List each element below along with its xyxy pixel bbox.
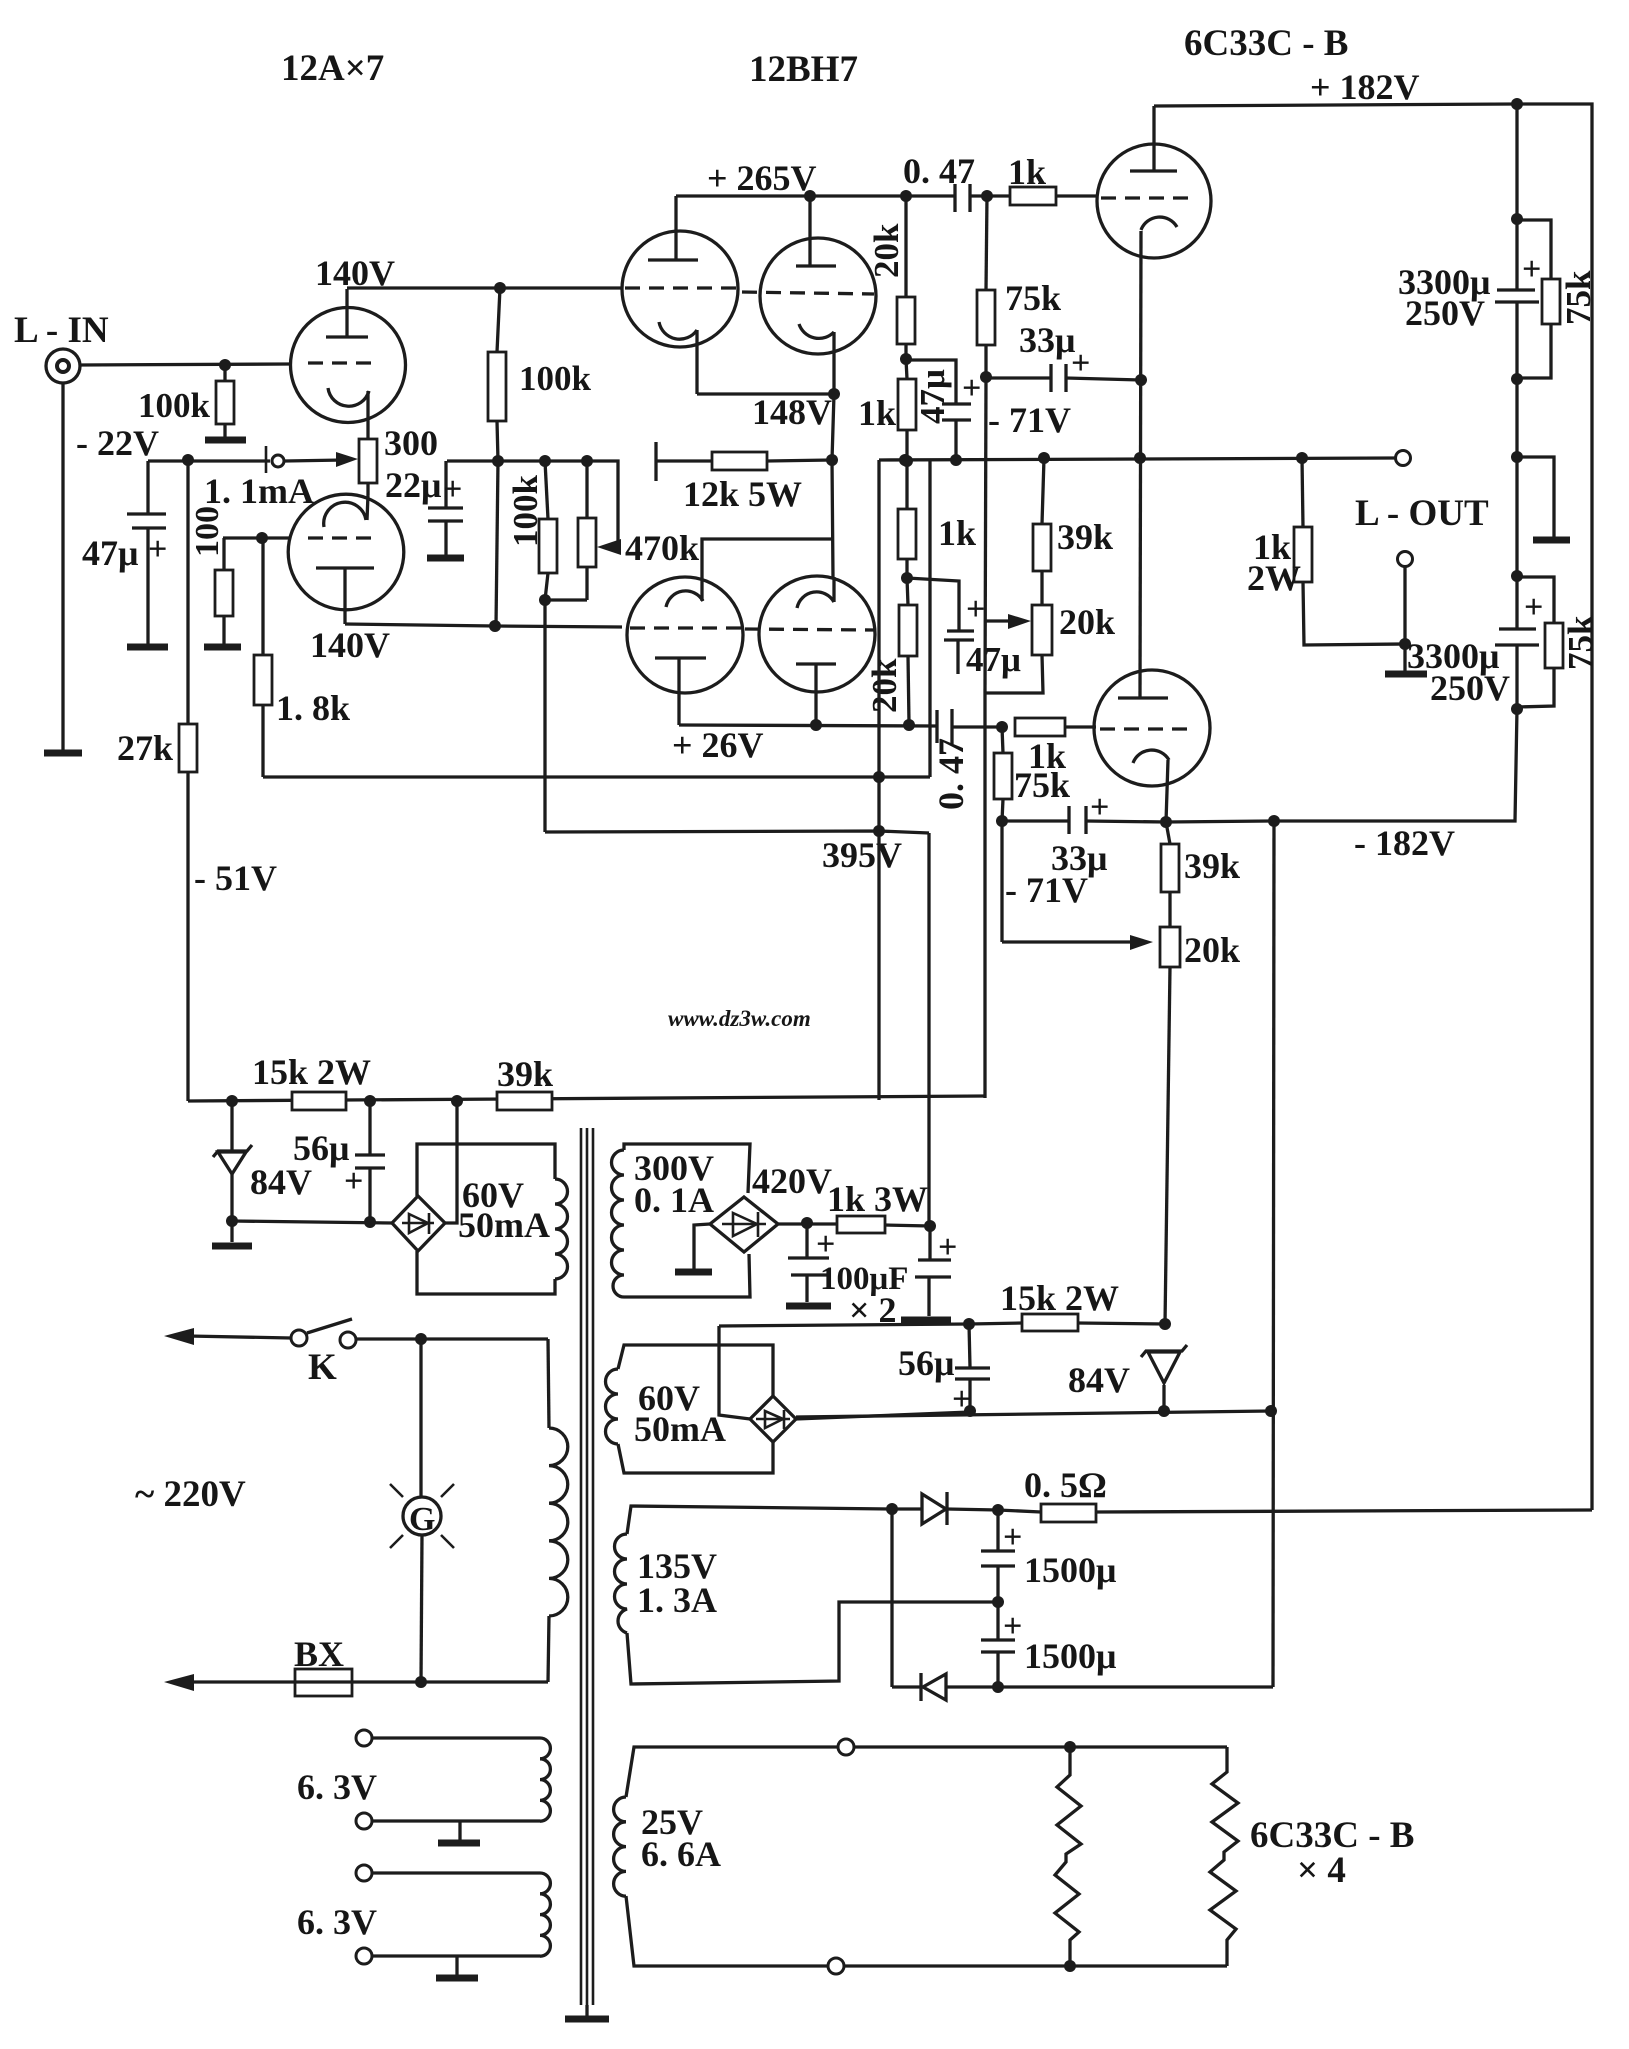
svg-text:+: + <box>816 1226 835 1263</box>
resistor R7 100k <box>545 461 548 519</box>
node 1k3W out <box>924 1220 936 1232</box>
resistor R25 15k 2W <box>292 1092 346 1110</box>
svg-text:20k: 20k <box>867 223 906 278</box>
wiper circle <box>272 455 284 467</box>
svg-text:1. 8k: 1. 8k <box>276 688 350 728</box>
wire L-IN shield down <box>61 383 64 750</box>
svg-text:1k: 1k <box>938 513 976 553</box>
ground under R1 <box>205 437 246 444</box>
ground B2 <box>675 1269 712 1276</box>
switch K <box>291 1330 307 1346</box>
V6 cathode (top) <box>666 591 703 607</box>
potentiometer R24 20k lower <box>1160 927 1180 967</box>
svg-text:- 22V: - 22V <box>76 423 159 463</box>
node zener2 top <box>1159 1318 1171 1330</box>
node -182V raw <box>992 1681 1004 1693</box>
capacitor C4 47u upper <box>906 360 956 404</box>
node cap1 bottom <box>1511 373 1523 385</box>
svg-text:+: + <box>962 370 981 407</box>
ground tap bar <box>1533 537 1570 544</box>
V3 cathode <box>659 322 697 339</box>
V1 cathode <box>328 388 369 406</box>
wire 39k psu drop <box>927 833 930 1226</box>
svg-text:× 4: × 4 <box>1297 1850 1346 1891</box>
node bus 47u <box>950 454 962 466</box>
wiper arrow into R2 <box>285 460 344 461</box>
resistor R14 20k lower <box>899 605 917 656</box>
V4 grid <box>742 292 874 294</box>
svg-text:47μ: 47μ <box>966 640 1021 679</box>
V5 grid <box>1101 196 1195 199</box>
node heater bus bottom <box>1064 1960 1076 1972</box>
node 56u tap <box>364 1095 376 1107</box>
lamp G <box>419 1339 422 1497</box>
node V2 grid <box>256 532 268 544</box>
wire decoupled node bus <box>447 461 618 547</box>
node plate rail junction <box>494 282 506 294</box>
resistor R26 39k psu <box>497 1092 552 1110</box>
svg-text:420V: 420V <box>752 1161 832 1201</box>
svg-text:0. 5Ω: 0. 5Ω <box>1024 1465 1107 1505</box>
ground L-OUT <box>1385 671 1427 678</box>
svg-text:2W: 2W <box>1247 558 1301 598</box>
capacitor C2 22u <box>444 461 447 507</box>
svg-text:+: + <box>344 1163 363 1200</box>
capacitor C13 100uF b <box>928 1226 931 1259</box>
ground L-IN <box>44 750 82 757</box>
potentiometer R2 300 (balance) <box>359 439 377 483</box>
node cap2 top <box>1511 570 1523 582</box>
svg-text:+ 182V: + 182V <box>1310 67 1420 107</box>
V8 cathode <box>1133 750 1169 763</box>
diode D3 <box>923 1674 946 1700</box>
V6 grid <box>630 626 742 629</box>
terminal L-OUT upper <box>1396 451 1411 466</box>
resistor R19 75k bleeder upper <box>1517 220 1551 279</box>
capacitor C8 3300u lower <box>1499 627 1536 630</box>
heater string 1 (zigzag) <box>1055 1747 1081 1966</box>
wire bus drop to feedback <box>928 461 931 777</box>
resistor R6 100k plate load <box>497 288 500 352</box>
svg-text:75k: 75k <box>1559 270 1598 325</box>
node 12k junction <box>826 454 838 466</box>
wire mid vertical down <box>543 600 546 832</box>
node 265V/0.47 <box>900 190 912 202</box>
wire -71V down to wiper lower <box>1000 821 1003 942</box>
resistor R12 1k <box>906 359 907 379</box>
svg-text:G: G <box>409 1501 435 1538</box>
rail +182V top <box>1154 104 1592 1510</box>
V5 cathode <box>1141 217 1177 230</box>
resistor R1 100k grid leak <box>223 365 226 381</box>
node +182V <box>1511 98 1523 110</box>
transformer winding T1-60V upper <box>417 1144 555 1196</box>
center tap a <box>458 1821 461 1840</box>
node cap2 bottom <box>1511 703 1523 715</box>
svg-text:1k: 1k <box>858 393 896 433</box>
resistor R5 1.8k feedback <box>261 538 264 655</box>
ground core <box>585 2005 588 2016</box>
node feedback 879 <box>873 771 885 783</box>
node bus100k a <box>492 455 504 467</box>
svg-text:- 71V: - 71V <box>988 400 1071 440</box>
switch K arrow <box>164 1328 194 1345</box>
node cap1 top <box>1511 213 1523 225</box>
V4 cathode <box>799 324 834 338</box>
svg-text:+: + <box>1003 1519 1022 1556</box>
wire V5 cathode down to lower plate <box>1140 231 1141 698</box>
bridge rectifier B2 420V <box>710 1197 778 1252</box>
wire 15k2W lower feed <box>719 1324 969 1326</box>
V3 grid <box>625 286 737 289</box>
wire to -182V rail <box>998 1685 1273 1688</box>
capacitor C1 47u <box>146 461 149 513</box>
resistor R29 15k 2W lower <box>1022 1314 1078 1331</box>
wire L-IN to V1 grid <box>80 364 291 365</box>
node -71V lower <box>996 815 1008 827</box>
wire bias feed down <box>983 693 986 1098</box>
svg-text:www.dz3w.com: www.dz3w.com <box>668 1006 811 1031</box>
svg-text:250V: 250V <box>1405 293 1485 333</box>
svg-text:0. 47: 0. 47 <box>931 738 971 810</box>
wire 578 stub to 47u lower <box>907 578 959 631</box>
svg-text:BX: BX <box>294 1634 344 1674</box>
node bus left corner down <box>877 460 880 1100</box>
heater winding 6.3V b <box>356 1865 372 1881</box>
resistor R13 1k lower <box>898 509 916 559</box>
svg-text:140V: 140V <box>310 625 390 665</box>
potentiometer R8 470k <box>585 461 588 518</box>
tube V1 12AX7a <box>291 308 406 423</box>
svg-text:0. 1A: 0. 1A <box>634 1180 714 1220</box>
V7 cathode (top) <box>797 592 834 608</box>
connector J1 L-IN <box>46 349 80 383</box>
node V8 cathode <box>1160 816 1172 828</box>
wiper arrow 470k <box>597 539 621 555</box>
node 56u lower <box>963 1318 975 1330</box>
svg-text:47μ: 47μ <box>82 533 138 573</box>
capacitor C7 3300u upper <box>1497 288 1535 291</box>
node cathode bus <box>1134 452 1146 464</box>
capacitor C10 33u lower <box>1002 819 1069 822</box>
svg-text:1k 3W: 1k 3W <box>827 1179 928 1219</box>
V6 plate (bottom) <box>655 656 706 659</box>
svg-text:1500μ: 1500μ <box>1024 1636 1116 1676</box>
wire B3 out <box>796 1412 970 1419</box>
svg-text:1500μ: 1500μ <box>1024 1550 1116 1590</box>
svg-text:+: + <box>966 591 985 628</box>
svg-text:300: 300 <box>384 423 438 463</box>
svg-text:20k: 20k <box>1184 930 1240 970</box>
wire V1 plate rail to 12BH7 <box>347 286 622 289</box>
svg-text:50mA: 50mA <box>634 1409 726 1449</box>
capacitor C11 56u <box>368 1101 371 1154</box>
zener D1 84V <box>230 1101 233 1151</box>
node 578 <box>901 572 913 584</box>
node bus470k <box>581 455 593 467</box>
node zener2 bottom <box>1158 1405 1170 1417</box>
svg-text:47μ: 47μ <box>913 369 952 424</box>
svg-text:50mA: 50mA <box>458 1205 550 1245</box>
wire D3 branch <box>890 1509 893 1687</box>
capacitor C5 47u lower <box>947 629 974 632</box>
tube V4 12BH7 upper-right <box>760 238 876 354</box>
resistor R23 39k lower <box>1166 822 1170 844</box>
svg-text:- 71V: - 71V <box>1005 870 1088 910</box>
tube V2 12AX7b <box>288 494 404 610</box>
node 1500u top <box>992 1504 1004 1516</box>
node 39k tap <box>451 1095 463 1107</box>
tube V7 12BH7 lower-right <box>759 576 875 692</box>
svg-text:27k: 27k <box>117 728 173 768</box>
node lamp tap <box>415 1333 427 1345</box>
svg-text:+: + <box>443 471 462 508</box>
tube V3 12BH7 upper-left <box>622 231 738 347</box>
svg-text:12A×7: 12A×7 <box>281 48 384 89</box>
svg-text:6. 3V: 6. 3V <box>297 1902 377 1942</box>
svg-text:~ 220V: ~ 220V <box>135 1474 246 1515</box>
ground zener <box>212 1243 252 1250</box>
transformer winding T1-60V lower <box>618 1345 773 1396</box>
potentiometer R17 20k upper <box>1032 605 1052 655</box>
node speaker gnd tap <box>1511 451 1523 463</box>
capacitor C3 0.47 upper <box>953 184 956 212</box>
svg-text:20k: 20k <box>1059 602 1115 642</box>
wire -182V rail right <box>1274 709 1517 821</box>
resistor R10 1k grid stopper upper <box>1010 187 1056 205</box>
bridge rectifier B3 60V lower <box>750 1396 796 1442</box>
heater winding 6.3V a <box>356 1730 372 1746</box>
capacitor C15 1500u b <box>996 1602 999 1639</box>
svg-text:75k: 75k <box>1014 765 1070 805</box>
node terminal/1k2W <box>1399 638 1411 650</box>
wire lower cathode jog <box>702 539 833 577</box>
svg-text:+: + <box>1524 589 1543 626</box>
V8 plate <box>1118 696 1168 699</box>
wire 420V out <box>778 1222 837 1225</box>
wiper arrow 20k lower <box>1002 940 1136 943</box>
resistor R4 100 <box>222 538 225 570</box>
wire bias long line <box>188 1096 985 1101</box>
node input junction <box>219 359 231 371</box>
wire -182V vertical psu <box>1273 821 1274 1687</box>
wiper arrow 20k upper <box>985 619 1014 622</box>
node zener bottom <box>226 1215 238 1227</box>
wire lower terminal down <box>1403 567 1406 671</box>
svg-text:K: K <box>308 1347 337 1388</box>
transformer core <box>580 1128 583 2005</box>
node V4 plate tap <box>804 190 816 202</box>
V1 grid <box>308 361 380 364</box>
svg-text:33μ: 33μ <box>1019 320 1075 360</box>
heater winding 25V 6.6A <box>626 1747 838 1797</box>
node 395V junction <box>873 825 885 837</box>
wire -182V bias bus <box>796 1411 1273 1417</box>
wire bias return <box>232 1221 392 1223</box>
svg-text:1k: 1k <box>1008 152 1046 192</box>
resistor R18 1k 2W <box>1302 458 1303 527</box>
heater string 2 (zigzag) <box>1210 1747 1238 1966</box>
wire 395V horizontal <box>545 831 929 833</box>
node V7 plate <box>810 719 822 731</box>
node -182V psu drop <box>1268 815 1280 827</box>
node cathode 33u <box>1135 374 1147 386</box>
V1 plate <box>326 335 368 338</box>
resistor R3 27k <box>179 724 197 772</box>
wire 20k bottom loop <box>985 655 1043 693</box>
svg-text:+ 26V: + 26V <box>672 725 764 765</box>
svg-text:- 51V: - 51V <box>194 858 277 898</box>
node bus 905 <box>899 454 911 466</box>
resistor R16 39k upper <box>1042 458 1044 524</box>
wire V2 grid left <box>223 536 289 539</box>
V2 grid <box>308 536 378 539</box>
svg-text:84V: 84V <box>250 1162 312 1202</box>
wiper tick <box>265 446 268 473</box>
resistor R27 1k 3W <box>837 1216 885 1233</box>
svg-text:148V: 148V <box>752 392 832 432</box>
svg-text:20k: 20k <box>865 658 904 713</box>
wire -71V down to wiper <box>985 377 986 693</box>
resistor R21 1k grid stopper lower <box>1015 718 1065 736</box>
ground C2 <box>427 555 464 562</box>
node heater bus top <box>1064 1741 1076 1753</box>
primary winding T1-220V <box>548 1339 549 1428</box>
node 148V <box>828 388 840 400</box>
svg-text:39k: 39k <box>1184 846 1240 886</box>
rail 182V mid <box>1515 104 1518 290</box>
ground R4 <box>204 644 241 651</box>
svg-text:100k: 100k <box>138 386 211 425</box>
node BX lamp <box>415 1676 427 1688</box>
svg-text:395V: 395V <box>822 835 902 875</box>
svg-text:39k: 39k <box>1057 517 1113 557</box>
svg-text:1. 3A: 1. 3A <box>637 1580 717 1620</box>
resistor R22 75k lower <box>1002 727 1003 753</box>
svg-text:100: 100 <box>189 506 226 557</box>
resistor R20 75k bleeder lower <box>1517 577 1554 623</box>
rail -22V down to 27k <box>186 461 189 724</box>
node 20k to +26V wire <box>903 719 915 731</box>
wire bridge gnd <box>694 1224 710 1269</box>
svg-text:6C33C - B: 6C33C - B <box>1184 23 1348 64</box>
wire bridge to 39k line <box>445 1101 457 1223</box>
svg-text:15k 2W: 15k 2W <box>1000 1278 1119 1318</box>
tube V5 6C33C upper <box>1097 144 1211 258</box>
node 47u tap upper <box>900 353 912 365</box>
svg-text:84V: 84V <box>1068 1360 1130 1400</box>
node 56u bottom lower <box>964 1405 976 1417</box>
diode D2 <box>922 1494 946 1524</box>
capacitor C16 56u lower <box>969 1324 970 1367</box>
transformer winding T1-135V <box>627 1506 892 1534</box>
node midpoint <box>992 1596 1004 1608</box>
node bus 39k <box>1038 452 1050 464</box>
transformer winding T1-300V <box>624 1144 750 1193</box>
V2 plate (bottom) <box>316 566 374 569</box>
ground bar C1 <box>127 644 168 651</box>
svg-text:6. 3V: 6. 3V <box>297 1767 377 1807</box>
capacitor C9 0.47 lower <box>935 710 938 743</box>
wire +26V <box>679 725 937 726</box>
output bus wire <box>879 458 1395 460</box>
bridge rectifier B1 60V <box>392 1196 445 1251</box>
node 420V <box>801 1217 813 1229</box>
V4 plate <box>796 264 836 267</box>
wire feedback line <box>263 775 930 778</box>
svg-text:+: + <box>1522 251 1541 288</box>
V3 plate <box>648 258 698 261</box>
resistor R11 20k <box>904 196 907 297</box>
resistor R15 75k upper <box>986 196 987 290</box>
svg-text:+: + <box>1071 345 1090 382</box>
node winding top / D2 <box>886 1503 898 1515</box>
node -71V upper <box>980 371 992 383</box>
node bus100k b <box>539 455 551 467</box>
node -22V rail <box>182 454 194 466</box>
capacitor C14 1500u a <box>996 1510 999 1550</box>
svg-text:15k 2W: 15k 2W <box>252 1052 371 1092</box>
tube V6 12BH7 lower-left <box>627 577 743 693</box>
rail mid section <box>1515 379 1518 629</box>
svg-text:39k: 39k <box>497 1054 553 1094</box>
node under 100k/470k <box>539 594 551 606</box>
svg-text:L - OUT: L - OUT <box>1355 493 1489 534</box>
svg-text:12BH7: 12BH7 <box>749 49 858 90</box>
V8 grid <box>1100 727 1190 730</box>
svg-text:+: + <box>148 531 167 568</box>
svg-text:L - IN: L - IN <box>14 310 109 351</box>
tube V8 6C33C lower <box>1094 670 1210 786</box>
svg-text:0. 47: 0. 47 <box>903 151 975 191</box>
node after C9 <box>996 721 1008 733</box>
node 56u bottom <box>364 1216 376 1228</box>
center tap b <box>455 1956 458 1975</box>
V7 grid <box>745 629 874 630</box>
wire V2 plate to 140V rail <box>345 624 622 627</box>
svg-text:1. 1mA: 1. 1mA <box>204 471 314 511</box>
svg-text:- 182V: - 182V <box>1354 823 1455 863</box>
svg-text:22μ: 22μ <box>385 465 441 505</box>
V7 plate (bottom) <box>796 662 836 665</box>
node bus 1k <box>901 455 913 467</box>
svg-text:56μ: 56μ <box>898 1343 954 1383</box>
svg-text:75k: 75k <box>1005 278 1061 318</box>
wire gnd tap <box>1517 457 1554 537</box>
svg-text:+: + <box>1003 1608 1022 1645</box>
capacitor C6 33u upper <box>986 376 1051 379</box>
zener D4 84V lower <box>1141 1345 1187 1357</box>
svg-text:56μ: 56μ <box>293 1128 349 1168</box>
svg-text:12k 5W: 12k 5W <box>683 474 802 514</box>
terminal L-OUT lower <box>1398 552 1413 567</box>
svg-text:100k: 100k <box>519 359 592 398</box>
svg-text:470k: 470k <box>625 528 699 568</box>
svg-text:6. 6A: 6. 6A <box>641 1834 721 1874</box>
capacitor C12 100uF a <box>805 1223 808 1257</box>
svg-text:+: + <box>1090 789 1109 826</box>
wire cathode join 148V <box>697 392 834 395</box>
resistor R28 0.5ohm <box>1041 1504 1096 1522</box>
node 140V wire <box>489 620 501 632</box>
resistor R9 12k 5W <box>654 442 657 481</box>
svg-text:+: + <box>938 1229 957 1266</box>
V5 plate <box>1130 169 1177 172</box>
wire 148V down <box>832 394 834 577</box>
node 15k left <box>226 1095 238 1107</box>
svg-text:75k: 75k <box>1561 615 1600 670</box>
rail +265V <box>676 194 906 197</box>
